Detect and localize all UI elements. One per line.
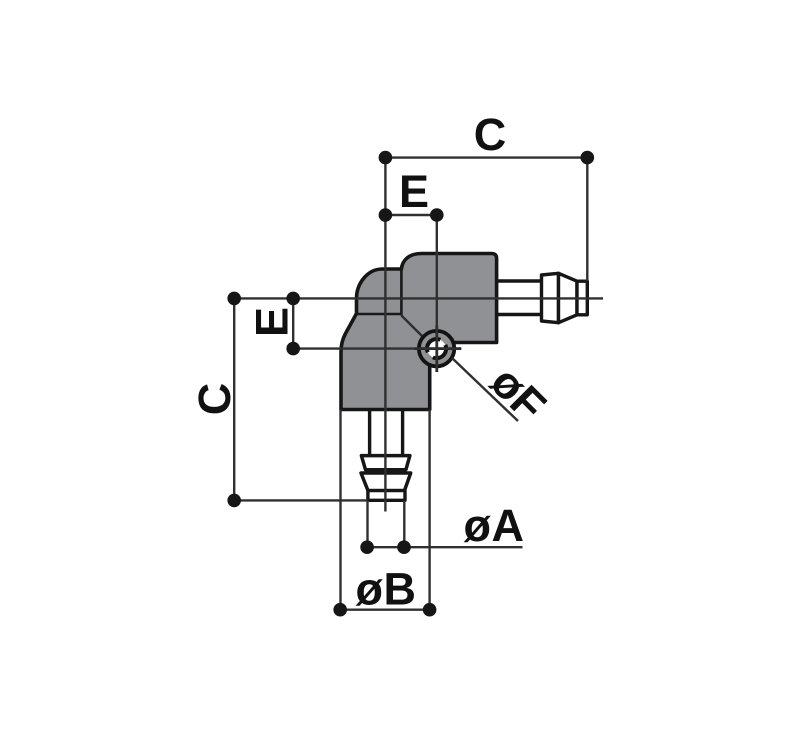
right barb end land [577, 281, 587, 315]
hole F outer ring [419, 331, 454, 366]
bottom barb cone 1 [361, 456, 410, 470]
right barb cone 1 [542, 273, 559, 322]
svg-text:øF: øF [481, 356, 556, 431]
hole F inner arc lower-right [433, 345, 446, 358]
neck boundary internal edge [400, 269, 403, 316]
extension line hole center horizontal [293, 347, 461, 349]
dimension line C left [233, 298, 235, 500]
leader line dia F [452, 358, 518, 421]
vertical centerline [384, 158, 386, 512]
shoulder internal edge [357, 313, 401, 316]
bottom barb cone 2 [361, 473, 411, 491]
dimension line E left [292, 298, 294, 348]
dimension line dia A [367, 546, 522, 548]
right barb cone 2 [559, 273, 578, 322]
elbow fitting body [341, 254, 497, 410]
hole F inner arc upper-left [427, 339, 440, 352]
hole F inner bore [427, 339, 446, 358]
bottom tube [370, 410, 403, 456]
svg-text:C: C [474, 109, 507, 160]
dimension line C top [385, 156, 587, 158]
horizontal centerline [234, 297, 603, 299]
extension line bottom barb end [234, 499, 367, 501]
extension lines dia A [368, 501, 405, 548]
hole F center mark cross [415, 326, 462, 373]
dimension dots [227, 151, 594, 617]
bottom barb end land [368, 491, 405, 501]
dimension line E top [385, 214, 436, 216]
extension line hole center vertical [436, 215, 438, 372]
extension line right barb end [586, 158, 588, 281]
right tube [497, 281, 542, 315]
svg-text:øB: øB [356, 564, 417, 615]
svg-text:E: E [246, 307, 297, 337]
dimension line dia B [340, 609, 429, 611]
chamfer edge to hole [401, 316, 423, 338]
svg-text:øA: øA [464, 500, 525, 551]
svg-text:C: C [189, 383, 240, 416]
extension lines dia B [341, 410, 430, 610]
svg-text:E: E [399, 166, 429, 217]
